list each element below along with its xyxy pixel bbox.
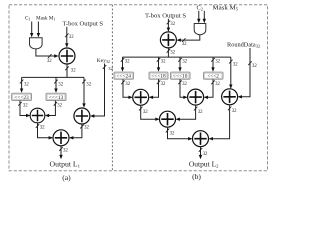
svg-text:C1: C1 [25,16,30,22]
svg-text:32: 32 [252,64,257,69]
wire XOR4 output (a) [59,146,62,159]
svg-text:32: 32 [233,63,238,68]
rotate left 10 box (b) [171,72,191,80]
wire XOR8 output to XOR10 (b) [209,105,232,140]
rotate left 2 box (b) [204,72,224,80]
wire branch 3 direct to XOR3 (a) [82,77,85,107]
svg-text:32: 32 [215,82,220,87]
wire RoundData into XOR8 (b) [238,48,252,99]
wire <<<2 output to XOR7 (b) [204,79,215,99]
svg-text:32: 32 [170,50,175,55]
xor gate XOR4 (a) [53,130,69,146]
svg-text:32: 32 [84,126,89,131]
wire branch 1 into rot box <<<23 (a) [20,77,23,93]
dashed divider between (a) and (b) [111,5,113,171]
svg-text:32: 32 [143,110,148,115]
svg-text:32: 32 [215,59,220,64]
wire XOR7 output to XOR9 (b) [176,105,198,121]
wire XOR2 output to XOR4 (a) [36,123,53,140]
svg-text:32: 32 [23,103,28,108]
distribution wire (a) [22,76,84,78]
wire XOR6 output to XOR9 (b) [139,105,160,121]
svg-text:32: 32 [71,68,76,73]
wire <<<24 output to XOR6 (b) [121,79,133,99]
svg-text:Output L1: Output L1 [50,161,81,168]
wire XOR3 output to XOR4 (a) [69,124,84,139]
svg-text:(b): (b) [192,172,201,181]
wire Mask M1 into mux (a) [37,22,40,38]
svg-text:32: 32 [57,103,62,108]
svg-text:32: 32 [161,59,166,64]
mask combiner U1 (a) [30,38,43,49]
svg-text:Mask M5: Mask M5 [213,5,239,12]
wire XOR9 output to XOR10 (b) [166,127,193,140]
wire <<<13 output to XOR2 (a) [45,101,57,118]
svg-text:C2: C2 [197,5,203,12]
wire U2 output to XOR5 (b) [177,35,200,42]
rotate left 18 box (b) [149,72,168,80]
wire branch 5 direct to XOR8 (b) [229,57,232,89]
xor gate XOR1 (a) [59,48,75,64]
svg-text:T-box Output S: T-box Output S [63,20,104,27]
wire <<<18 output to XOR6 (b) [149,79,161,99]
svg-text:32: 32 [125,59,130,64]
svg-text:<<<13: <<<13 [49,96,64,101]
wire branch 2 into rot box <<<13 (a) [54,77,57,93]
svg-text:<<<18: <<<18 [151,75,166,80]
svg-text:32: 32 [69,35,74,40]
svg-text:32: 32 [232,109,237,114]
wire <<<10 output to XOR7 (b) [178,79,187,99]
xor gate XOR8 (b) [222,89,238,105]
wire branch 1 into rot box <<<24 (b) [121,57,124,72]
wire <<<23 output to XOR2 (a) [18,101,30,118]
wire XOR5 output to distribution node (b) [167,48,170,57]
rotate left 23 box (a) [12,93,32,101]
svg-text:32: 32 [182,42,187,47]
xor gate XOR9 (b) [160,111,176,127]
svg-text:(a): (a) [62,173,71,182]
svg-text:RoundData32: RoundData32 [227,41,260,48]
xor gate XOR3 (a) [74,108,90,124]
xor gate XOR2 (a) [30,108,45,123]
svg-text:32: 32 [108,66,113,71]
svg-text:32: 32 [40,126,45,131]
xor gate XOR5 (b) [160,32,176,48]
rotate left 13 box (a) [46,93,66,101]
xor gate XOR7 (b) [188,89,204,105]
svg-text:32: 32 [86,82,91,87]
svg-text:32: 32 [161,82,166,87]
distribution wire (b) [123,56,231,58]
wire branch 2 into rot box <<<18 (b) [157,57,160,72]
svg-text:<<<23: <<<23 [14,96,29,101]
svg-text:<<<2: <<<2 [207,75,219,80]
dashed frame border [9,5,268,171]
rotate left 24 box (b) [114,72,134,80]
wire Mask M5 into mux (b) [203,11,206,23]
wire XOR1 output to distribution node (a) [65,64,68,77]
svg-text:32: 32 [58,82,63,87]
mask combiner U2 (b) [194,24,206,35]
svg-text:32: 32 [125,82,130,87]
svg-text:32: 32 [47,59,52,64]
wire U1 output to XOR1 (a) [36,49,59,58]
wire branch 4 into rot box <<<2 (b) [211,57,214,72]
svg-text:32: 32 [170,131,175,136]
xor gate XOR10 (b) [193,131,209,147]
wire T-box S into XOR5 (b) [167,19,170,32]
svg-text:32: 32 [182,82,187,87]
svg-text:32: 32 [24,82,29,87]
wire branch 3 into rot box <<<10 (b) [178,57,181,72]
wire XOR10 output (b) [199,147,202,160]
wire Key into XOR3 (a) [90,64,106,118]
svg-text:32: 32 [63,148,68,153]
svg-text:Mask M1: Mask M1 [36,16,55,22]
svg-text:Output L2: Output L2 [189,161,219,168]
xor gate XOR6 (b) [133,89,149,105]
wire T-box S into XOR1 (a) [65,27,68,48]
svg-text:<<<24: <<<24 [116,75,131,80]
wire C2 into mux (b) [197,11,200,23]
svg-text:T-box Output S: T-box Output S [145,12,187,19]
svg-text:32: 32 [198,110,203,115]
svg-text:32: 32 [203,152,208,157]
wire C1 into mux (a) [30,22,33,38]
svg-text:Key32: Key32 [97,58,110,64]
svg-text:<<<10: <<<10 [173,75,188,80]
svg-text:32: 32 [182,59,187,64]
svg-text:32: 32 [170,22,175,27]
